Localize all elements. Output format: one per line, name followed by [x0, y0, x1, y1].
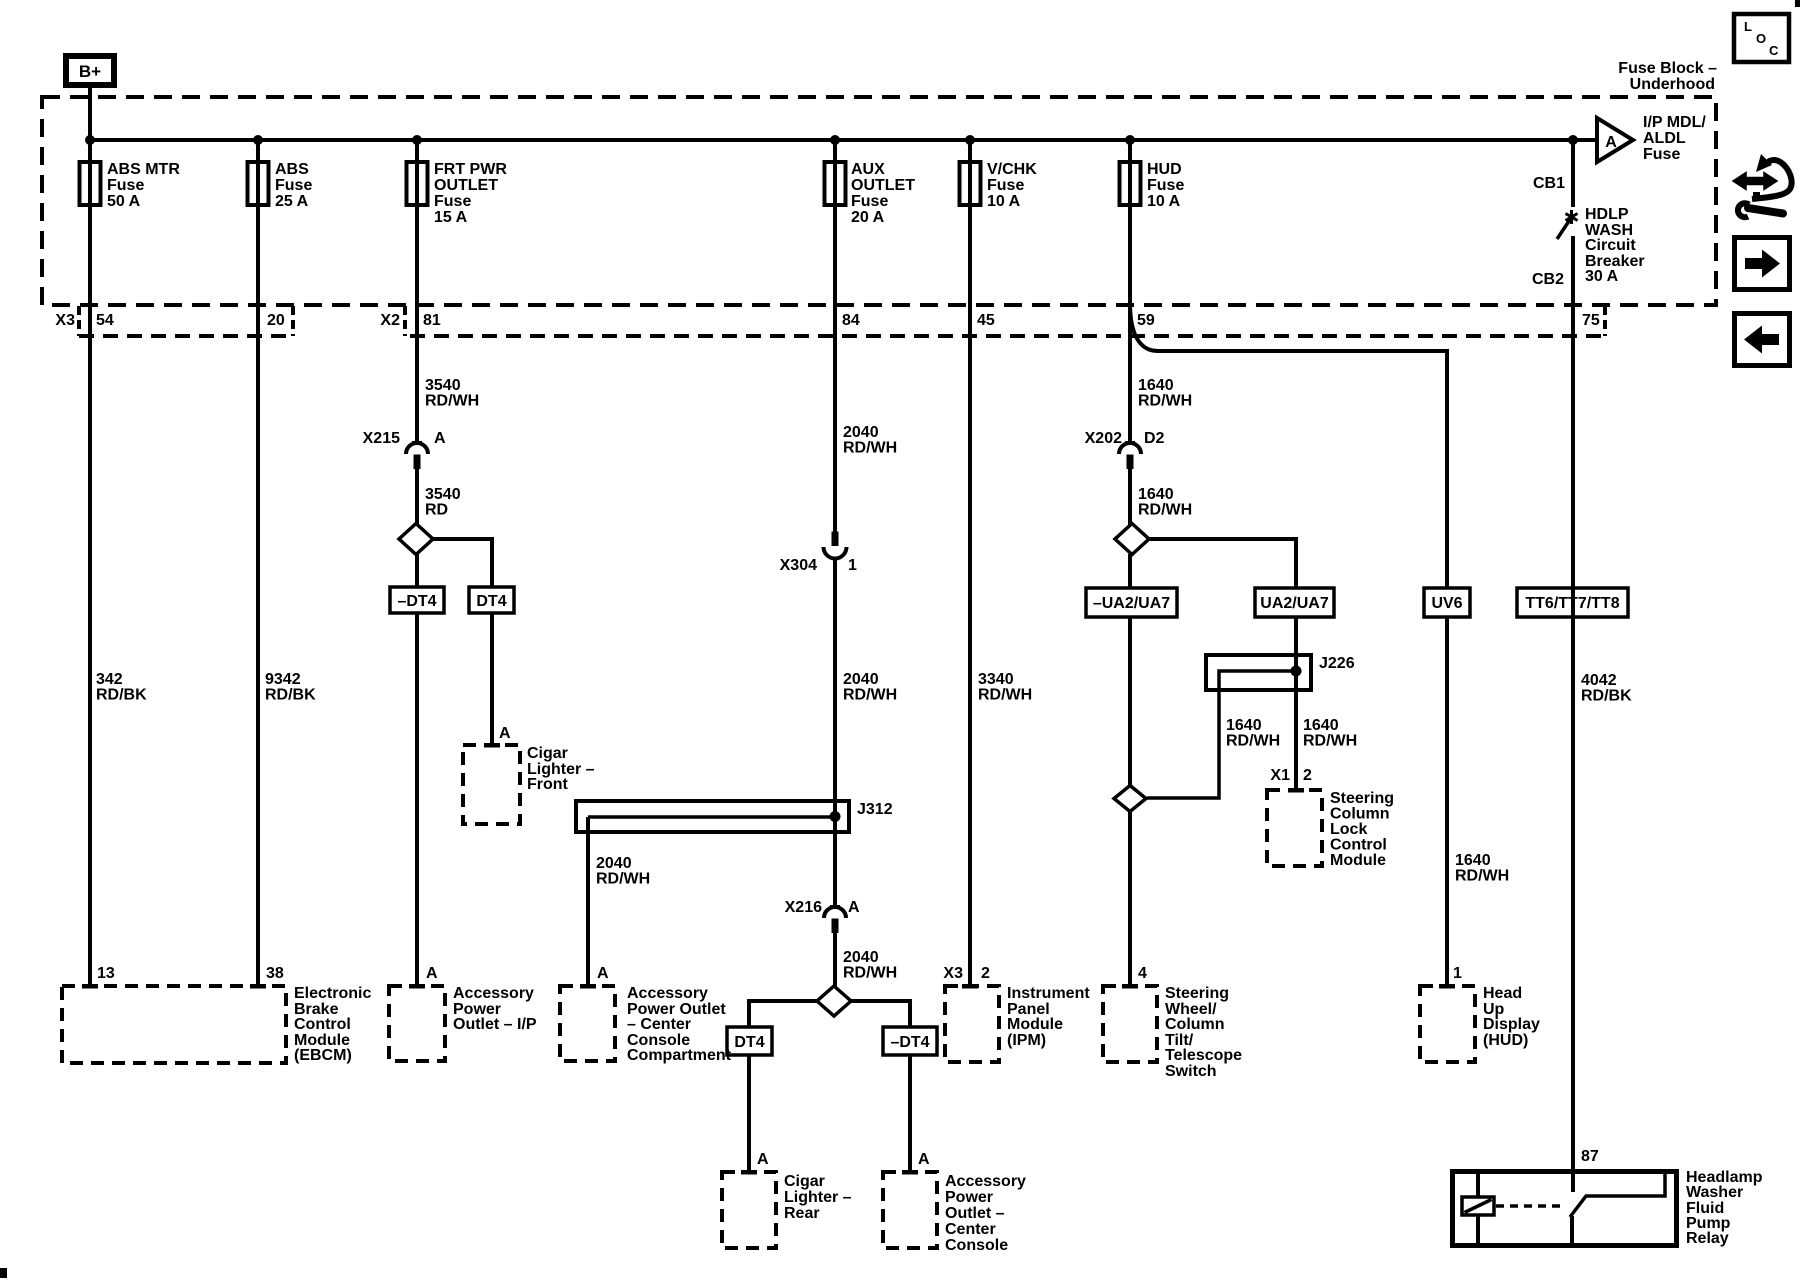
svg-text:2040: 2040 — [843, 424, 879, 441]
component: Electronic Brake Control Module (EBCM) — [62, 984, 371, 1064]
svg-text:X3: X3 — [55, 312, 75, 329]
svg-text:J312: J312 — [857, 801, 893, 818]
svg-text:A: A — [426, 965, 438, 982]
svg-text:2: 2 — [981, 965, 990, 982]
label wire 2040 RD/WH upper — [843, 424, 897, 457]
svg-text:CB1: CB1 — [1533, 175, 1565, 192]
svg-text:Column: Column — [1330, 806, 1390, 823]
wire: S4 down to Steering Wheel Switch — [1128, 811, 1132, 986]
svg-text:Fuse: Fuse — [1643, 146, 1680, 163]
label wire 1640 RD/WH mid — [1138, 486, 1192, 519]
svg-text:38: 38 — [266, 965, 284, 982]
fuse HUD 10 A — [1120, 161, 1185, 210]
svg-text:RD/WH: RD/WH — [596, 871, 650, 888]
svg-text:OUTLET: OUTLET — [851, 177, 915, 194]
svg-text:X304: X304 — [780, 557, 817, 574]
svg-text:Compartment: Compartment — [627, 1047, 732, 1064]
svg-text:30 A: 30 A — [1585, 268, 1619, 285]
svg-text:(HUD): (HUD) — [1483, 1032, 1528, 1049]
svg-text:X215: X215 — [363, 430, 400, 447]
svg-text:RD/WH: RD/WH — [1138, 502, 1192, 519]
wire: S3 branch right to UA2/UA7 — [1149, 539, 1296, 790]
svg-text:Circuit: Circuit — [1585, 237, 1636, 254]
svg-text:ALDL: ALDL — [1643, 130, 1686, 147]
page icon: diagnostic tools symbol — [1733, 154, 1792, 217]
option box DT4 — [469, 587, 514, 613]
wire: FRT PWR OUTLET drop upper 3540 RD/WH — [415, 140, 419, 442]
component: Head Up Display (HUD) — [1420, 984, 1540, 1062]
wire: J312 branch down to Accessory Power Outlet Center Console Compartment — [586, 817, 590, 986]
wire: HUD fuse drop upper 1640 RD/WH — [1128, 140, 1132, 442]
junction node at ABS fuse — [253, 135, 263, 145]
svg-text:1640: 1640 — [1226, 717, 1262, 734]
page icon: next page arrow — [1735, 238, 1790, 290]
wire: splice S1 down to Accessory Power Outlet I/P — [415, 554, 419, 986]
wire: main bus — [88, 138, 1597, 142]
svg-text:(IPM): (IPM) — [1007, 1032, 1046, 1049]
svg-text:J226: J226 — [1319, 655, 1355, 672]
wire: J312 internal branch to left — [588, 815, 835, 819]
svg-text:3540: 3540 — [425, 377, 461, 394]
junction node at ABS MTR fuse — [85, 135, 95, 145]
svg-text:A: A — [757, 1151, 769, 1168]
label wire 3540 RD/WH — [425, 377, 479, 410]
svg-text:9342: 9342 — [265, 671, 301, 688]
svg-text:Lighter –: Lighter – — [784, 1189, 852, 1206]
option box -UA2/UA7 — [1086, 588, 1177, 617]
svg-text:Switch: Switch — [1165, 1063, 1217, 1080]
svg-text:A: A — [597, 965, 609, 982]
svg-text:81: 81 — [423, 312, 441, 329]
svg-text:RD/WH: RD/WH — [843, 965, 897, 982]
svg-text:Display: Display — [1483, 1016, 1540, 1033]
fuse ABS 25 A — [248, 161, 313, 210]
wire: 1640 RD/WH segment to splice — [1128, 469, 1132, 525]
svg-text:RD: RD — [425, 502, 448, 519]
junction node at AUX OUTLET fuse — [830, 135, 840, 145]
wire: B+ feed — [88, 88, 92, 986]
svg-text:–UA2/UA7: –UA2/UA7 — [1093, 595, 1170, 612]
svg-text:Center: Center — [945, 1221, 996, 1238]
svg-text:Outlet –: Outlet – — [945, 1205, 1005, 1222]
relay coil — [1462, 1197, 1494, 1215]
component: Steering Column Lock Control Module — [1267, 788, 1394, 869]
svg-text:4042: 4042 — [1581, 672, 1617, 689]
svg-text:20 A: 20 A — [851, 209, 885, 226]
svg-text:Fuse Block –: Fuse Block – — [1618, 60, 1717, 77]
svg-text:1: 1 — [1453, 965, 1462, 982]
svg-text:RD/WH: RD/WH — [1226, 733, 1280, 750]
svg-text:RD/WH: RD/WH — [1303, 733, 1357, 750]
svg-text:1640: 1640 — [1455, 852, 1491, 869]
connector strip lower edge X3 group — [79, 334, 293, 338]
label wire 9342 RD/BK — [265, 671, 316, 704]
svg-text:45: 45 — [977, 312, 995, 329]
svg-text:Steering: Steering — [1330, 790, 1394, 807]
wire: V/CHK drop 3340 RD/WH — [968, 140, 972, 986]
svg-text:10 A: 10 A — [987, 193, 1021, 210]
svg-text:ABS: ABS — [275, 161, 309, 178]
svg-text:Accessory: Accessory — [945, 1173, 1026, 1190]
svg-text:10 A: 10 A — [1147, 193, 1181, 210]
svg-text:3340: 3340 — [978, 671, 1014, 688]
svg-text:A: A — [918, 1151, 930, 1168]
svg-text:Underhood: Underhood — [1630, 76, 1715, 93]
label wire 2040 RD/WH lower — [843, 949, 897, 982]
wire: splice S1 to DT4 branch — [433, 539, 492, 745]
fuse FRT PWR OUTLET 15 A — [407, 161, 508, 226]
svg-text:1640: 1640 — [1138, 377, 1174, 394]
wire: 3540 RD segment — [415, 469, 419, 525]
svg-text:HUD: HUD — [1147, 161, 1182, 178]
svg-text:AUX: AUX — [851, 161, 885, 178]
svg-text:54: 54 — [96, 312, 114, 329]
svg-text:D2: D2 — [1144, 430, 1165, 447]
svg-text:RD/WH: RD/WH — [843, 440, 897, 457]
svg-text:Fuse: Fuse — [987, 177, 1024, 194]
svg-text:2040: 2040 — [596, 855, 632, 872]
fuse AUX OUTLET 20 A — [825, 161, 916, 226]
label wire 4042 RD/BK — [1581, 672, 1632, 705]
svg-text:A: A — [848, 899, 860, 916]
svg-text:RD/WH: RD/WH — [1455, 868, 1509, 885]
svg-text:I/P MDL/: I/P MDL/ — [1643, 114, 1706, 131]
svg-text:HDLP: HDLP — [1585, 206, 1629, 223]
svg-text:Head: Head — [1483, 985, 1522, 1002]
svg-text:A: A — [434, 430, 446, 447]
svg-text:20: 20 — [267, 312, 285, 329]
label wire 1640 RD/WH at UV6 drop — [1455, 852, 1509, 885]
svg-text:RD/WH: RD/WH — [843, 687, 897, 704]
component: Cigar Lighter - Front — [463, 743, 595, 824]
svg-text:Control: Control — [1330, 837, 1387, 854]
svg-text:DT4: DT4 — [476, 593, 506, 610]
label wire 2040 RD/WH left branch — [596, 855, 650, 888]
svg-text:Washer: Washer — [1686, 1184, 1743, 1201]
wire: AUX OUTLET drop upper 2040 RD/WH — [833, 140, 837, 532]
svg-text:Module: Module — [1330, 852, 1386, 869]
svg-text:RD/BK: RD/BK — [265, 687, 316, 704]
component: Instrument Panel Module (IPM) — [945, 984, 1090, 1062]
corner mark bottom left — [0, 1268, 7, 1278]
splice diamond S1 — [399, 524, 433, 555]
svg-text:Instrument: Instrument — [1007, 985, 1090, 1002]
svg-text:RD/WH: RD/WH — [978, 687, 1032, 704]
svg-text:25 A: 25 A — [275, 193, 309, 210]
svg-text:2: 2 — [1303, 767, 1312, 784]
component: Accessory Power Outlet - Center Console Compartment — [560, 984, 732, 1064]
svg-text:Accessory: Accessory — [627, 985, 708, 1002]
svg-text:Electronic: Electronic — [294, 985, 371, 1002]
option box -DT4 — [390, 587, 444, 613]
fuse block underhood dashed border — [42, 97, 1716, 305]
svg-text:Telescope: Telescope — [1165, 1047, 1242, 1064]
junction block J312 — [576, 801, 893, 832]
junction node at HUD fuse — [1125, 135, 1135, 145]
svg-text:15 A: 15 A — [434, 209, 468, 226]
svg-text:RD/BK: RD/BK — [96, 687, 147, 704]
svg-text:X1: X1 — [1270, 767, 1290, 784]
svg-text:– Center: – Center — [627, 1016, 691, 1033]
page icon: LOC reference box — [1734, 14, 1789, 62]
connector separator left of pin 54 — [77, 306, 81, 336]
label wire 1640 RD/WH right of J226 — [1303, 717, 1357, 750]
svg-text:1640: 1640 — [1303, 717, 1339, 734]
label wire 1640 RD/WH left of J226 — [1226, 717, 1280, 750]
svg-text:342: 342 — [96, 671, 123, 688]
option box UV6 — [1424, 588, 1470, 617]
component: Cigar Lighter - Rear — [722, 1170, 852, 1248]
svg-text:Front: Front — [527, 776, 569, 793]
option box TT6/TT7/TT8 — [1517, 588, 1628, 617]
svg-text:2040: 2040 — [843, 671, 879, 688]
svg-text:Column: Column — [1165, 1016, 1225, 1033]
circuit breaker HDLP WASH 30 A — [1557, 210, 1578, 239]
svg-text:L: L — [1744, 19, 1752, 34]
wire: branch curve from pin 59 to UV6 — [1130, 303, 1447, 986]
svg-text:Cigar: Cigar — [527, 745, 568, 762]
fuse ABS MTR 50 A — [80, 161, 181, 210]
svg-text:X202: X202 — [1085, 430, 1122, 447]
label wire 1640 RD/WH upper — [1138, 377, 1192, 410]
svg-text:RD/WH: RD/WH — [1138, 393, 1192, 410]
svg-text:O: O — [1756, 31, 1766, 46]
svg-text:Fuse: Fuse — [107, 177, 144, 194]
svg-text:50 A: 50 A — [107, 193, 141, 210]
svg-text:OUTLET: OUTLET — [434, 177, 498, 194]
svg-text:Steering: Steering — [1165, 985, 1229, 1002]
relay actuating dashed link — [1496, 1204, 1565, 1208]
page icon: previous page arrow — [1735, 314, 1790, 366]
svg-text:UV6: UV6 — [1431, 595, 1462, 612]
relay lower throw wire — [1570, 1216, 1574, 1246]
inline connector X215 pin A — [406, 441, 428, 469]
svg-text:3540: 3540 — [425, 486, 461, 503]
connector separator right of pin 20 — [291, 306, 295, 336]
svg-text:Rear: Rear — [784, 1205, 820, 1222]
wire: 2040 RD/WH below X216 — [833, 933, 837, 988]
svg-text:4: 4 — [1138, 965, 1147, 982]
svg-text:Fuse: Fuse — [1147, 177, 1184, 194]
svg-text:2040: 2040 — [843, 949, 879, 966]
connector strip lower edge X2 group — [410, 334, 1605, 338]
option box -DT4 row2 — [883, 1027, 937, 1055]
svg-text:A: A — [499, 725, 511, 742]
relay: Headlamp Washer Fluid Pump Relay — [1453, 1169, 1763, 1247]
component: Accessory Power Outlet - I/P — [389, 984, 537, 1061]
svg-text:84: 84 — [842, 312, 860, 329]
svg-text:Fuse: Fuse — [434, 193, 471, 210]
svg-text:Cigar: Cigar — [784, 1173, 825, 1190]
svg-text:X2: X2 — [380, 312, 400, 329]
junction block J226 — [1206, 655, 1355, 690]
relay coil feed line — [1476, 1171, 1480, 1246]
inline connector X304 pin 1 — [824, 532, 847, 559]
wire: CB1 drop — [1571, 140, 1575, 207]
wire: S2 right branch to -DT4 — [851, 1001, 910, 1172]
svg-text:X216: X216 — [785, 899, 822, 916]
svg-text:Outlet – I/P: Outlet – I/P — [453, 1016, 537, 1033]
svg-text:Lock: Lock — [1330, 821, 1367, 838]
svg-text:–DT4: –DT4 — [890, 1034, 929, 1051]
wire: S2 left branch to DT4 — [749, 1001, 817, 1172]
svg-text:87: 87 — [1581, 1148, 1599, 1165]
wire: TT6/TT7/TT8 drop 4042 RD/BK — [1571, 236, 1575, 1192]
inline connector X216 pin A — [824, 905, 846, 933]
connector separator right of X2 — [403, 306, 407, 336]
svg-text:75: 75 — [1582, 312, 1600, 329]
svg-text:Console: Console — [945, 1237, 1008, 1254]
label wire 3540 RD — [425, 486, 461, 519]
junction node at V/CHK fuse — [965, 135, 975, 145]
svg-text:Accessory: Accessory — [453, 985, 534, 1002]
svg-text:Control: Control — [294, 1016, 351, 1033]
fuse symbol I/P MDL/ALDL (triangle A) — [1597, 114, 1706, 163]
svg-text:1: 1 — [848, 557, 857, 574]
corner mark top right — [1795, 0, 1800, 7]
svg-text:(EBCM): (EBCM) — [294, 1047, 352, 1064]
wire: 2040 RD/WH to J312 — [833, 558, 837, 907]
svg-text:FRT PWR: FRT PWR — [434, 161, 507, 178]
svg-text:59: 59 — [1137, 312, 1155, 329]
svg-text:–DT4: –DT4 — [397, 593, 436, 610]
svg-text:CB2: CB2 — [1532, 271, 1564, 288]
svg-text:V/CHK: V/CHK — [987, 161, 1037, 178]
junction node at CB1 — [1568, 135, 1578, 145]
wire: S3 down through -UA2/UA7 — [1128, 554, 1132, 786]
svg-text:X3: X3 — [943, 965, 963, 982]
relay switch contact wire — [1585, 1171, 1665, 1196]
wire: J226 internal branch to splice S4 — [1147, 671, 1296, 798]
component: Accessory Power Outlet - Center Console — [883, 1170, 1026, 1254]
svg-text:Power: Power — [945, 1189, 993, 1206]
svg-text:B+: B+ — [79, 62, 101, 81]
wire: ABS fuse drop circuit 9342 — [256, 140, 260, 986]
junction dot in J312 — [830, 811, 841, 822]
svg-text:Relay: Relay — [1686, 1230, 1729, 1247]
label: Fuse Block - Underhood — [1618, 60, 1717, 93]
svg-text:Module: Module — [1007, 1016, 1063, 1033]
splice diamond S4 — [1114, 786, 1146, 812]
junction dot in J226 — [1291, 666, 1302, 677]
svg-text:DT4: DT4 — [734, 1034, 764, 1051]
splice diamond S2 — [817, 986, 851, 1016]
svg-text:ABS MTR: ABS MTR — [107, 161, 180, 178]
svg-text:A: A — [1605, 134, 1617, 151]
connector separator right of pin 75 — [1603, 306, 1607, 336]
label wire 2040 RD/WH mid — [843, 671, 897, 704]
label wire 342 RD/BK — [96, 671, 147, 704]
junction node at FRT PWR OUTLET fuse — [412, 135, 422, 145]
inline connector X202 pin D2 — [1119, 441, 1141, 469]
svg-text:1640: 1640 — [1138, 486, 1174, 503]
svg-text:RD/WH: RD/WH — [425, 393, 479, 410]
label wire 3340 RD/WH — [978, 671, 1032, 704]
svg-text:Fuse: Fuse — [275, 177, 312, 194]
svg-text:UA2/UA7: UA2/UA7 — [1260, 595, 1329, 612]
svg-text:Fuse: Fuse — [851, 193, 888, 210]
svg-text:RD/BK: RD/BK — [1581, 688, 1632, 705]
svg-text:C: C — [1769, 43, 1779, 58]
label HDLP WASH Circuit Breaker 30 A — [1585, 206, 1645, 285]
option box UA2/UA7 — [1255, 588, 1334, 617]
fuse V/CHK 10 A — [960, 161, 1038, 210]
option box DT4 row2 — [727, 1027, 772, 1055]
component: Steering Wheel/Column Tilt/Telescope Switch — [1103, 984, 1242, 1080]
splice diamond S3 — [1115, 524, 1149, 555]
relay switch blade — [1570, 1196, 1586, 1217]
svg-text:13: 13 — [97, 965, 115, 982]
battery positive terminal B+ — [66, 56, 114, 85]
